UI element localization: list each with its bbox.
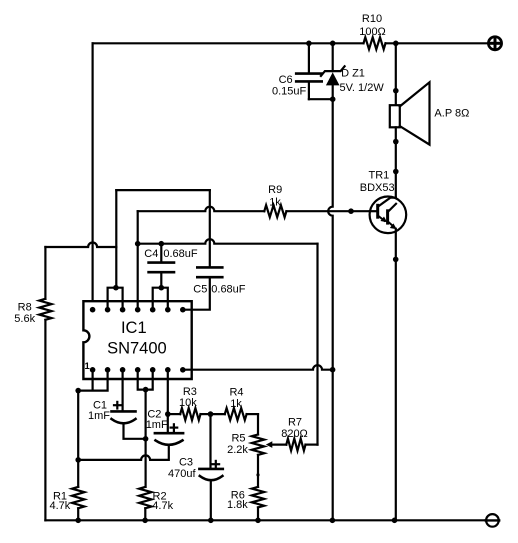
node bracket 4-5 junction [143, 387, 149, 393]
svg-text:5.6k: 5.6k [14, 313, 35, 325]
wire R8 bottom to rail corner [44, 320, 46, 521]
wire zener net down with hop over R9 wire [328, 99, 333, 520]
node DZ1 top junction [330, 41, 336, 47]
wire pins 10-9 tie bracket [153, 288, 168, 310]
wire emitter to bottom rail [395, 229, 397, 521]
node R5/R6 joint mark [256, 473, 259, 476]
wire R2 upper lead [145, 390, 147, 487]
node speaker lower terminal [393, 139, 399, 145]
node R3 left junction [165, 411, 171, 417]
wire C1 bottom lead [124, 423, 146, 438]
node C4 top junction [159, 241, 165, 247]
svg-text:1k: 1k [230, 398, 242, 410]
capacitor C1 curved plate [112, 419, 136, 423]
resistor R7 [286, 439, 305, 451]
svg-text:R5: R5 [231, 433, 245, 445]
wire pin 11 riser to R9 wire [137, 211, 139, 310]
wire C6 top lead [308, 43, 310, 72]
svg-text:4.7k: 4.7k [152, 500, 173, 512]
transistor TR1 second base bar [386, 211, 389, 223]
wire R2 bottom lead [144, 508, 146, 520]
svg-text:D Z1: D Z1 [341, 67, 365, 79]
capacitor C5 [197, 267, 222, 277]
svg-text:A.P 8Ω: A.P 8Ω [434, 108, 469, 120]
svg-text:1mF: 1mF [146, 419, 168, 431]
wire C6 to DZ1 bottom [309, 98, 333, 100]
svg-text:100Ω: 100Ω [359, 26, 386, 38]
wire R5 to R6 [257, 455, 259, 487]
node R2 / rail junction [142, 518, 148, 524]
capacitor C2 plus plate [155, 432, 183, 435]
wire R3 right lead [201, 413, 211, 415]
wire feedback top horizontal [116, 189, 210, 191]
resistor R1 [72, 487, 84, 508]
wire VCC drop to IC pin 14 [91, 43, 93, 309]
svg-text:470uf: 470uf [168, 468, 196, 480]
resistor R6 [252, 487, 264, 508]
node zener net / bottom rail junction [330, 518, 336, 524]
node R6 / rail junction [255, 518, 261, 524]
wire C5 bottom to pin 8 [183, 278, 210, 309]
transistor TR1 first emitter arrow [380, 217, 387, 223]
wire DZ1 cathode lead [332, 43, 334, 71]
wire R5 top lead [257, 414, 259, 434]
wire DZ1 anode lead [332, 85, 334, 99]
transistor TR1 circle [370, 197, 407, 234]
wire C3 top lead [209, 414, 211, 468]
transistor TR1 second emitter stroke [388, 221, 394, 226]
resistor R3 [180, 408, 200, 420]
wire R9 to transistor base [286, 210, 377, 212]
resistor R5 wiper arrow [266, 441, 273, 448]
IC top pin dots (pins 14-8) [90, 307, 186, 313]
wire pin 3 lead to C1 [121, 370, 123, 410]
wire R7 right lead [306, 444, 318, 446]
svg-text:R8: R8 [18, 301, 32, 313]
wire R8 node horizontal with hop over VCC drop [45, 243, 116, 248]
transistor TR1 base wire inside [370, 210, 378, 212]
wire oscillator node horizontal with hop over C5 lead [138, 239, 318, 244]
resistor R2 [139, 487, 151, 508]
wire bottom negative rail [45, 519, 486, 521]
resistor R9 [264, 205, 286, 217]
svg-text:0.68uF: 0.68uF [163, 248, 198, 260]
svg-text:1mF: 1mF [88, 410, 110, 422]
svg-text:1.8k: 1.8k [227, 499, 248, 511]
capacitor C4 [149, 263, 174, 273]
svg-text:TR1: TR1 [369, 170, 390, 182]
wire R1 bottom lead [77, 508, 79, 520]
node bracket 13-12 junction [113, 285, 119, 291]
svg-text:4.7k: 4.7k [50, 500, 71, 512]
resistor R5 (preset) [252, 435, 264, 455]
IC bottom pin dots (pins 1-7) [90, 367, 186, 373]
resistor R10 [364, 37, 386, 49]
svg-text:10k: 10k [179, 397, 197, 409]
wire pins 1-2 tie [78, 370, 107, 391]
wire R3 left lead [168, 413, 180, 415]
svg-text:2.2k: 2.2k [227, 444, 248, 456]
node bracket 10-9 junction [159, 285, 165, 291]
transistor TR1 first collector stroke [378, 198, 396, 207]
speaker AP magnet box [390, 105, 400, 127]
node collector wire junction [393, 169, 399, 175]
svg-text:0.68uF: 0.68uF [211, 283, 246, 295]
svg-text:5V. 1/2W: 5V. 1/2W [339, 82, 384, 94]
wire R4 left lead [211, 413, 225, 415]
svg-text:C3: C3 [179, 457, 193, 469]
wire speaker top lead [395, 43, 397, 105]
svg-text:1: 1 [85, 361, 91, 372]
transistor TR1 second collector stroke [388, 204, 396, 212]
IC U1 body SN7400 [83, 301, 191, 379]
node C3 / rail junction [208, 518, 214, 524]
node zener net / pin7 wire junction [330, 367, 336, 373]
wire R4 right lead to R5 [247, 413, 258, 415]
label C2 polarity + [171, 424, 178, 431]
capacitor C1 plus plate [112, 410, 136, 413]
transistor TR1 first base bar [376, 205, 379, 217]
node pin11 riser / C4 wire junction [135, 241, 141, 247]
svg-text:820Ω: 820Ω [281, 428, 308, 440]
wire pins 4-5 tie bracket [138, 370, 153, 390]
node C6 top junction [306, 41, 312, 47]
node R1 / C2 return junction [75, 457, 81, 463]
node R1 / rail junction [75, 518, 81, 524]
svg-text:C6: C6 [279, 74, 293, 86]
resistor R4 [225, 408, 247, 420]
capacitor C3 plus plate [199, 468, 222, 471]
node emitter / bottom rail junction [392, 518, 398, 524]
wire C2 bottom lead with hop over R2 line [78, 445, 169, 460]
node base wire junction [348, 208, 354, 214]
wire R1 upper lead [77, 391, 79, 487]
wire R6 bottom lead [257, 507, 259, 520]
zener diode DZ1 triangle [326, 72, 340, 85]
transistor TR1 first emitter stroke [378, 215, 385, 220]
wire C4 bottom lead [160, 273, 162, 287]
wire pins 13-12 tie bracket [108, 288, 123, 310]
wire speaker bottom lead to collector [395, 127, 397, 198]
wire top rail right segment [386, 42, 489, 44]
wire feedback vertical x116 [115, 190, 117, 288]
node DZ1/C6 bottom junction [330, 96, 336, 102]
capacitor C6 [296, 74, 322, 82]
zener diode DZ1 cathode bar [321, 66, 345, 76]
svg-text:0.15uF: 0.15uF [272, 86, 307, 98]
wire C4 top lead [160, 244, 162, 262]
resistor R8 [39, 299, 51, 320]
svg-text:SN7400: SN7400 [107, 340, 167, 358]
node R3 / R4 / C3 junction [208, 411, 214, 417]
node speaker upper terminal [393, 88, 399, 94]
wire R8 top lead [44, 247, 46, 299]
transistor TR1 second emitter arrow [390, 223, 397, 229]
capacitor C3 curved plate [200, 476, 223, 480]
node speaker top junction [393, 41, 399, 47]
node emitter wire junction [393, 257, 399, 263]
wire R7 left lead [272, 444, 287, 446]
speaker AP cone [400, 82, 430, 144]
wire top positive rail left segment [93, 42, 364, 44]
node C1 return junction [143, 436, 149, 442]
svg-text:C4: C4 [144, 248, 158, 260]
wire pin 7 to zener net with hop over feedback vertical [183, 365, 333, 370]
svg-text:R10: R10 [362, 13, 382, 25]
label C1 polarity + [114, 402, 121, 409]
wire pin 6 lead [167, 370, 169, 432]
terminal - (negative supply) [486, 514, 500, 527]
wire C6 bottom lead [308, 83, 310, 100]
capacitor C2 curved plate [156, 440, 183, 444]
node R1 top junction [75, 388, 81, 394]
label C3 polarity + [213, 461, 220, 468]
svg-text:R4: R4 [229, 387, 243, 399]
wire right feedback vertical to R7 [316, 244, 318, 445]
svg-text:BDX53: BDX53 [360, 182, 395, 194]
svg-text:IC1: IC1 [121, 319, 147, 337]
terminal + (positive supply) [488, 37, 501, 50]
wire R9 left with hop over C5 lead [138, 207, 265, 211]
svg-text:R9: R9 [268, 184, 282, 196]
wire C5 lead vertical [209, 190, 211, 266]
wire C3 bottom lead [210, 480, 212, 520]
svg-text:C5: C5 [193, 283, 207, 295]
